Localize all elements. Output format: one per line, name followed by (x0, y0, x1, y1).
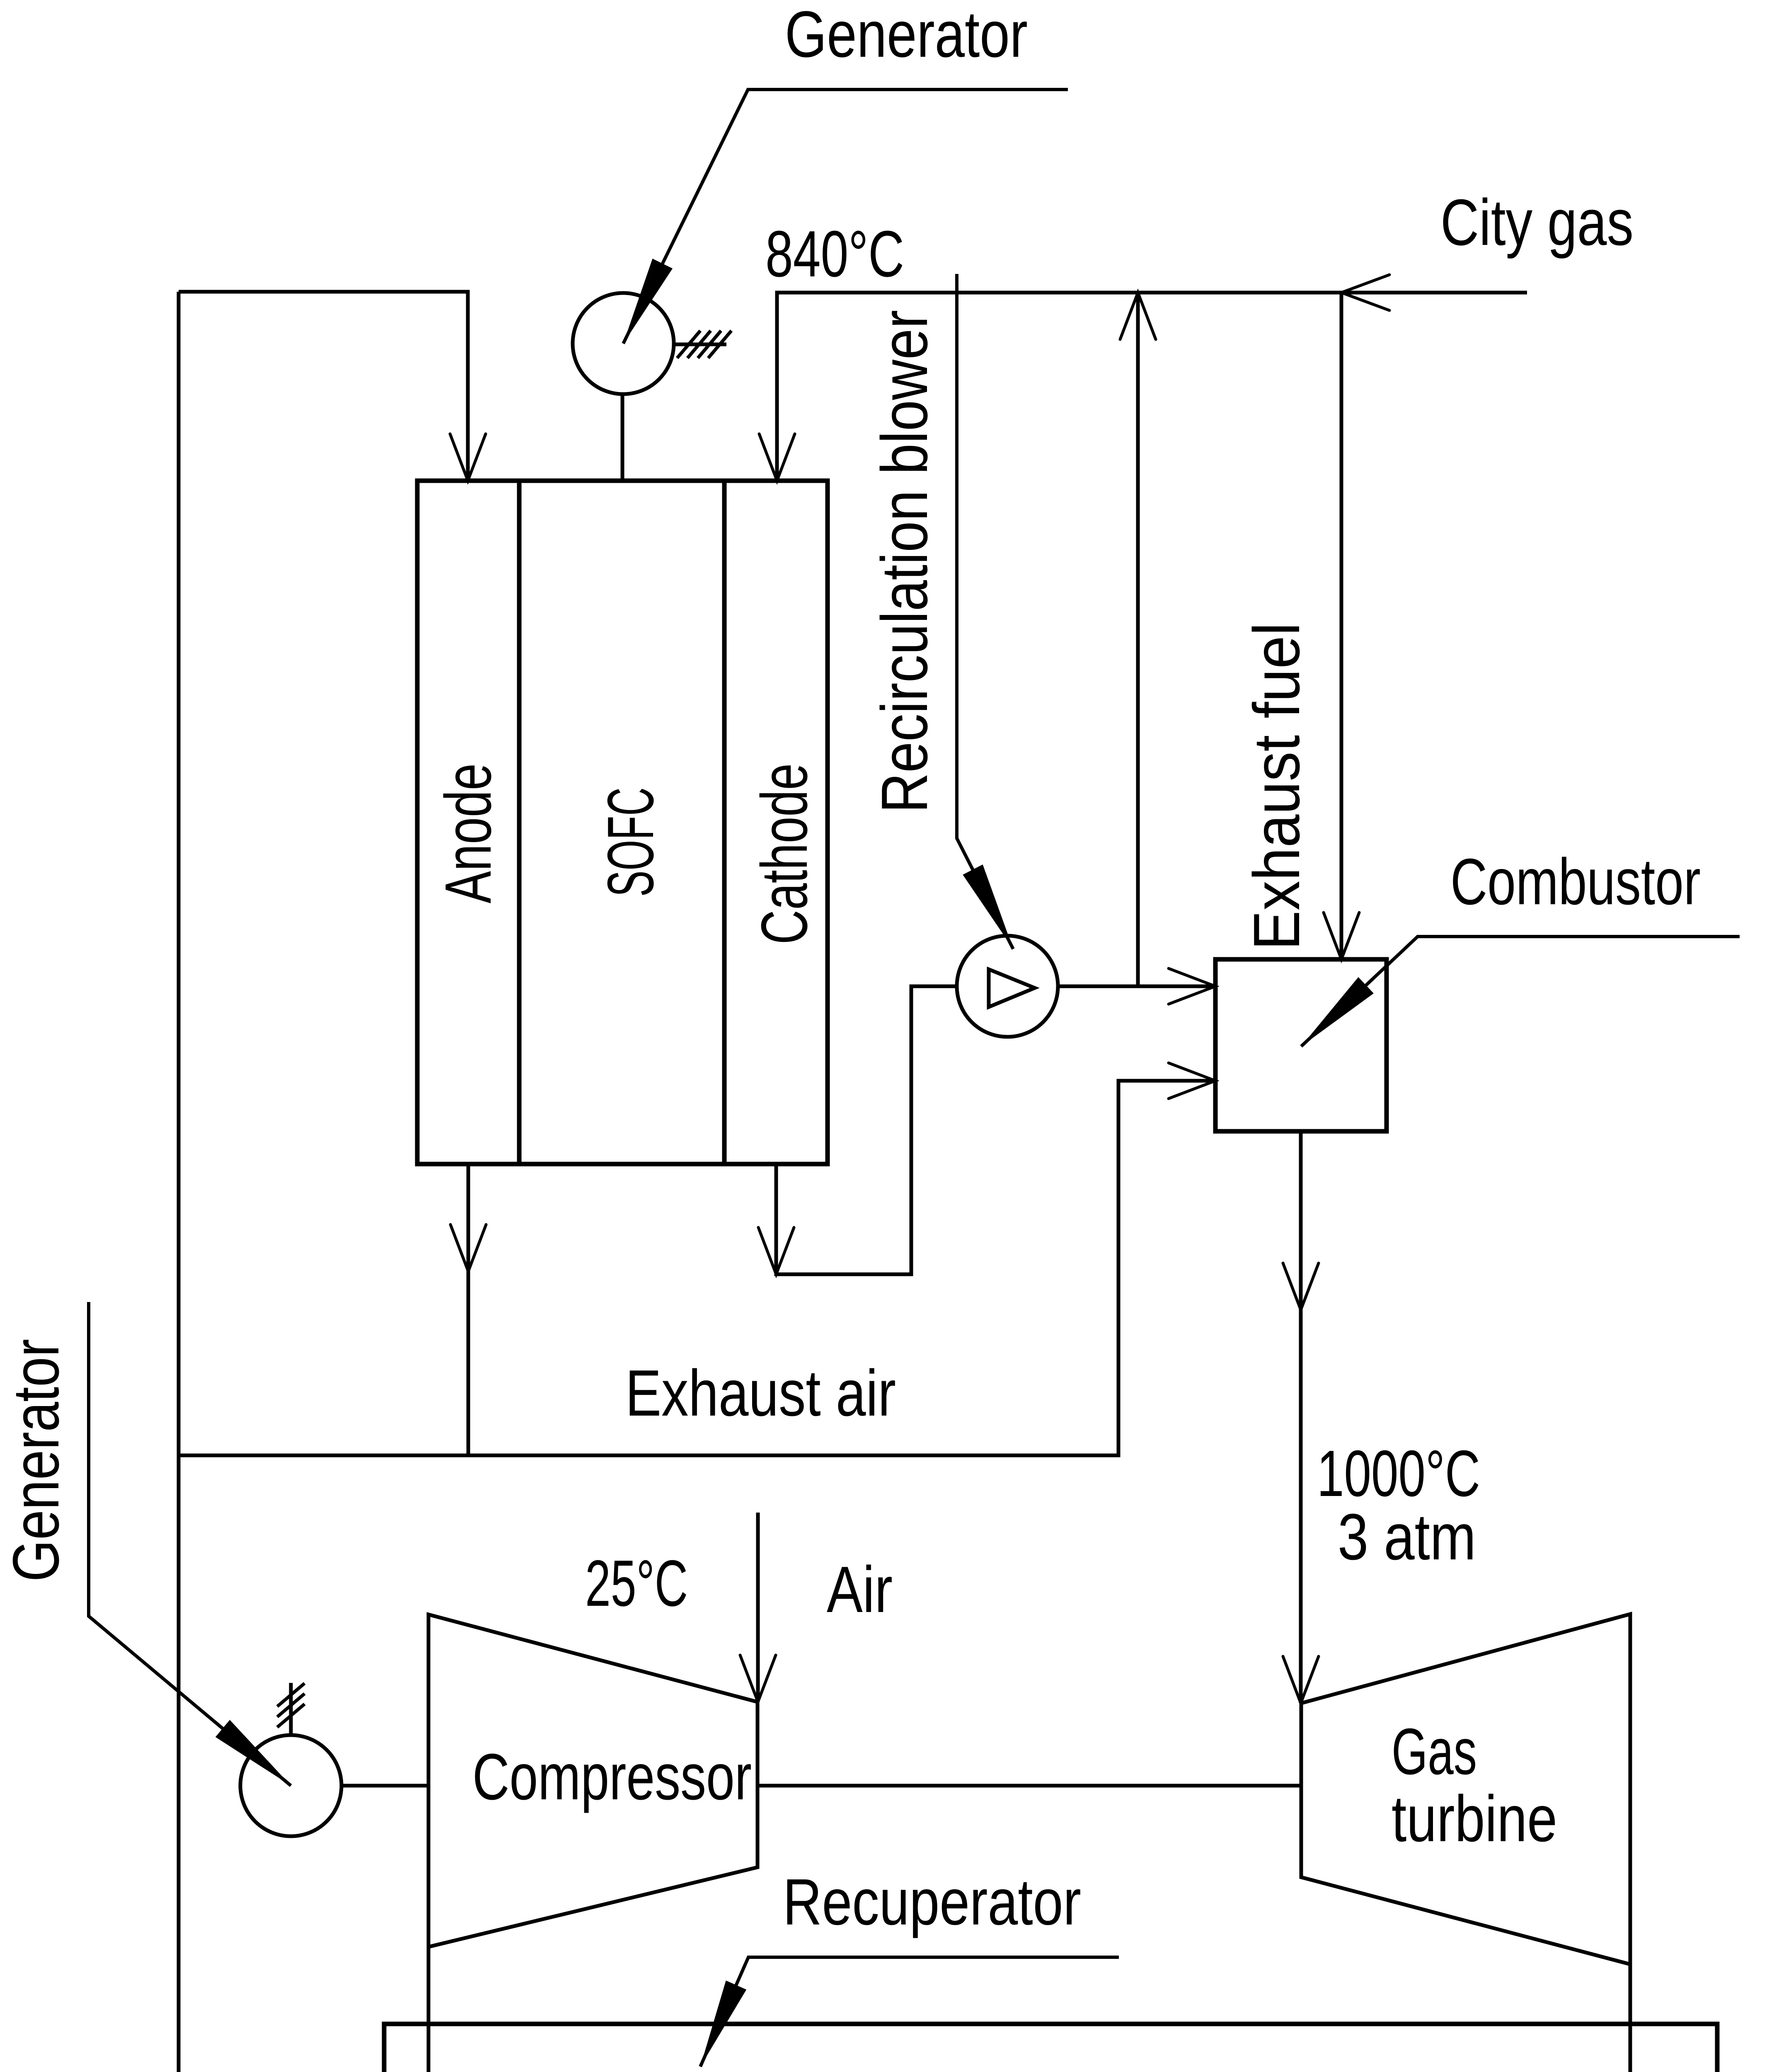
wire: shaft generator to compressor (341, 1784, 428, 1788)
wire: blower outlet to combustor upper inlet (1058, 985, 1215, 988)
svg-text:Exhaust air: Exhaust air (625, 1357, 896, 1430)
arrow on cathode outlet (758, 1227, 794, 1274)
wire: city gas / fuel down pipe to combustor (1340, 293, 1343, 959)
arrow into cathode top (759, 434, 795, 481)
wire: air inlet line (756, 1513, 760, 1702)
compressor trapezoid (428, 1615, 758, 1947)
svg-text:Recuperator: Recuperator (783, 1866, 1081, 1939)
ground of generator G2: stem up (289, 1683, 293, 1735)
generator G2 circle (shaft) (240, 1735, 341, 1836)
solid wedge arrowhead of recuperator leader (700, 1980, 746, 2067)
leader for Combustor (1301, 937, 1740, 1046)
svg-text:turbine: turbine (1392, 1782, 1557, 1855)
wire: combustor outlet down to gas turbine (1299, 1131, 1303, 1703)
svg-text:Generator: Generator (785, 0, 1028, 71)
svg-text:Exhaust fuel: Exhaust fuel (1240, 622, 1313, 950)
SOFC divider anode (517, 481, 522, 1164)
wire: cathode inlet pipe from top pipe (777, 293, 1341, 481)
arrow into anode top (450, 434, 486, 481)
SOFC box (417, 481, 828, 1164)
generator G1 circle (top) (573, 293, 674, 394)
ground of generator G2: hatches (277, 1683, 305, 1727)
ground of generator G1: horizontal tail (674, 343, 726, 346)
wire: exhaust fuel riser from blower outlet to top pipe (1136, 293, 1140, 986)
svg-text:Anode: Anode (432, 763, 505, 903)
SOFC divider cathode (722, 481, 727, 1164)
arrow pointing up to top pipe (1120, 293, 1156, 339)
svg-text:Gas: Gas (1392, 1715, 1477, 1788)
solid wedge arrowhead of blower leader (963, 864, 1013, 949)
wire: anode outlet down to exhaust air line (467, 1164, 470, 1455)
arrow into combustor upper inlet (1169, 968, 1215, 1004)
arrow into combustor lower inlet (1169, 1063, 1215, 1099)
svg-text:Recirculation blower: Recirculation blower (868, 310, 941, 813)
wire: compressor outlet through recuperator to left riser (179, 1947, 428, 2072)
svg-text:SOFC: SOFC (594, 787, 667, 897)
gas turbine trapezoid (1301, 1614, 1630, 1964)
arrow on anode outlet (450, 1225, 486, 1271)
svg-text:Combustor: Combustor (1450, 845, 1701, 918)
arrow city gas pointing left (1341, 275, 1389, 310)
recuperator box (384, 2024, 1717, 2072)
wire: exhaust air line to combustor lower inlet (179, 1081, 1215, 1455)
wire: cathode outlet elbow to blower (776, 986, 957, 1274)
ground of generator G1: hatches (677, 331, 731, 358)
recirculation blower circle (957, 936, 1058, 1037)
svg-text:3 atm: 3 atm (1338, 1501, 1476, 1573)
leader for Recirculation blower (957, 274, 1013, 949)
generator G1 stem to SOFC (621, 394, 624, 481)
leader for top Generator (623, 90, 1068, 344)
leader for Recuperator (700, 1957, 1119, 2067)
arrow mid combustor outlet (1283, 1263, 1319, 1310)
arrow into compressor inlet (740, 1655, 776, 1702)
svg-text:25°C: 25°C (585, 1547, 688, 1620)
solid wedge arrowhead of left generator leader (215, 1720, 291, 1786)
arrow into gas turbine inlet (1283, 1656, 1319, 1703)
combustor box (1215, 959, 1387, 1131)
wire: left outer riser (177, 292, 181, 2072)
leader for left Generator (89, 1302, 291, 1786)
arrow into combustor top (1324, 913, 1359, 959)
solid wedge arrowhead of combustor leader (1301, 977, 1374, 1046)
svg-text:Air: Air (827, 1553, 893, 1626)
wire: turbine exhaust through recuperator (1629, 1964, 1632, 2072)
wire: city gas inlet line (1341, 291, 1527, 295)
svg-text:Cathode: Cathode (748, 763, 821, 944)
wire: shaft compressor to gas turbine (758, 1784, 1301, 1788)
solid wedge arrowhead of top Generator leader (623, 259, 673, 344)
recirculation blower triangle (989, 969, 1035, 1007)
svg-text:1000°C: 1000°C (1317, 1437, 1480, 1510)
svg-text:Generator: Generator (0, 1339, 73, 1582)
svg-text:Compressor: Compressor (472, 1740, 752, 1813)
wire: top-left pipe from left riser to anode inlet (179, 292, 468, 481)
svg-text:840°C: 840°C (765, 218, 904, 290)
svg-text:City gas: City gas (1440, 186, 1634, 259)
